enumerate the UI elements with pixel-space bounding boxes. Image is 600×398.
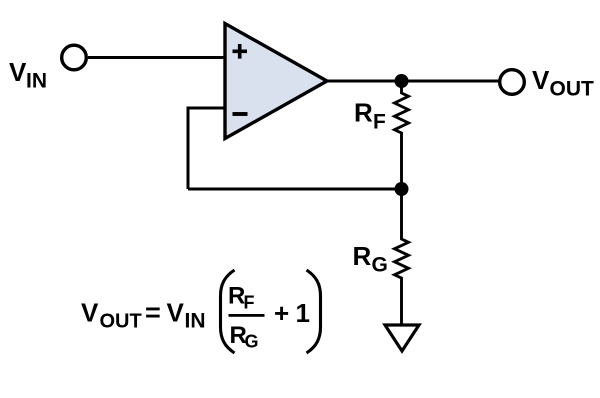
svg-text:V: V <box>9 57 27 87</box>
op-amp minus input marker <box>233 112 248 116</box>
wire input to op-amp noninverting input <box>88 56 225 59</box>
label RG <box>353 241 388 277</box>
junction node at feedback <box>395 182 409 196</box>
svg-text:V: V <box>167 298 185 328</box>
wire inverting input stub <box>187 107 226 110</box>
resistor RF <box>395 85 409 186</box>
wire op-amp output <box>327 80 500 83</box>
svg-text:V: V <box>81 298 99 328</box>
formula VOUT = VIN <box>81 298 206 333</box>
wire feedback horizontal <box>188 188 402 191</box>
svg-text:R: R <box>353 241 372 271</box>
formula right parenthesis <box>307 270 321 353</box>
formula fraction bar <box>229 314 265 317</box>
svg-text:IN: IN <box>26 70 47 93</box>
label VIN <box>9 57 47 93</box>
junction node at output <box>395 74 409 88</box>
input terminal circle <box>62 45 87 70</box>
svg-text:G: G <box>372 254 388 277</box>
svg-text:+: + <box>274 298 289 328</box>
svg-text:1: 1 <box>296 298 310 328</box>
svg-text:OUT: OUT <box>100 311 142 333</box>
wire feedback vertical <box>187 108 190 189</box>
svg-text:F: F <box>373 111 386 134</box>
svg-text:G: G <box>245 332 259 352</box>
svg-text:F: F <box>244 293 255 313</box>
svg-text:OUT: OUT <box>550 78 595 101</box>
svg-text:=: = <box>145 298 161 328</box>
label VOUT <box>532 65 594 101</box>
formula RF numerator <box>228 283 255 313</box>
svg-text:IN: IN <box>185 310 206 333</box>
op-amp U1 body <box>225 24 327 139</box>
formula RG denominator <box>230 322 259 352</box>
formula left parenthesis <box>221 270 235 353</box>
formula plus one <box>274 298 310 328</box>
label RF <box>354 98 386 134</box>
output terminal circle <box>500 70 525 95</box>
svg-text:V: V <box>532 65 550 95</box>
resistor RG <box>395 192 409 325</box>
op-amp plus input marker <box>233 44 248 59</box>
ground <box>385 325 419 351</box>
svg-text:R: R <box>354 98 373 128</box>
